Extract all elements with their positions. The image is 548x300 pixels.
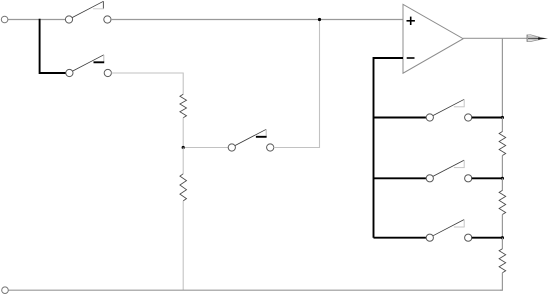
wire: node A down to resistor R2 (182, 148, 184, 174)
resistor R3 (499, 132, 506, 156)
wire: feedback bus to switch S6 (374, 237, 427, 239)
wire: node D to resistor R4 (501, 178, 503, 190)
node B junction dot (top rail) (318, 18, 321, 21)
resistor R5 (499, 249, 506, 273)
wire: bottom rail (8, 289, 502, 291)
wire: switch S2 output right then down to resistor R1 (111, 73, 183, 95)
wire: feedback bus to switch S5 (374, 177, 427, 179)
node E junction dot (501, 236, 504, 239)
switch S3 (middle) (228, 129, 274, 151)
wire: node A to switch S3 (185, 147, 228, 149)
op-amp U1 (403, 4, 463, 73)
resistor R2 (180, 174, 187, 201)
wire: op-amp output to output port (463, 37, 527, 39)
switch S6 (right bank row 3) (426, 220, 472, 242)
wire: resistor R3 to node D (501, 156, 503, 179)
switch S5 (right bank row 2) (426, 160, 472, 182)
output port arrow OUT (527, 35, 548, 42)
wire: switch S5 output to node D (472, 177, 503, 179)
wire: switch S3 output right and up to node B on top rail (274, 20, 320, 148)
wire: switch S6 output to node E (472, 237, 503, 239)
switch S2 (second from top, left) (66, 55, 112, 77)
node A junction dot (182, 146, 185, 149)
wire: resistor R4 to node E (501, 215, 503, 238)
wire: feedback bus to switch S4 (374, 117, 427, 119)
wire: resistor R1 bottom to node A (182, 118, 184, 148)
wire: switch S4 output to node C (472, 117, 503, 119)
wire: resistor R2 bottom down to bottom rail (182, 201, 184, 290)
node C junction dot (501, 116, 504, 119)
wire: top rail from input terminal to switch S1 (8, 19, 66, 21)
wire: output node down right column (501, 38, 503, 117)
switch S1 (top left) (65, 1, 111, 23)
switch S4 (right bank row 1) (426, 99, 472, 121)
input terminal P1 (top left) (1, 16, 8, 23)
resistor R1 (180, 94, 187, 117)
wire: black branch from top rail down to switch S2 (40, 19, 66, 73)
wire: op-amp inverting input feedback, black, down left side of switch bank (374, 58, 404, 238)
wire: node E to resistor R5 (501, 238, 503, 249)
input terminal P2 (bottom left) (2, 287, 9, 294)
resistor R4 (499, 190, 506, 214)
node D junction dot (501, 177, 504, 180)
wire: resistor R5 down to bottom rail corner (500, 273, 502, 290)
wire: node C to resistor R3 (501, 118, 503, 132)
wire: switch S1 output to op-amp non-inverting input (111, 19, 403, 21)
